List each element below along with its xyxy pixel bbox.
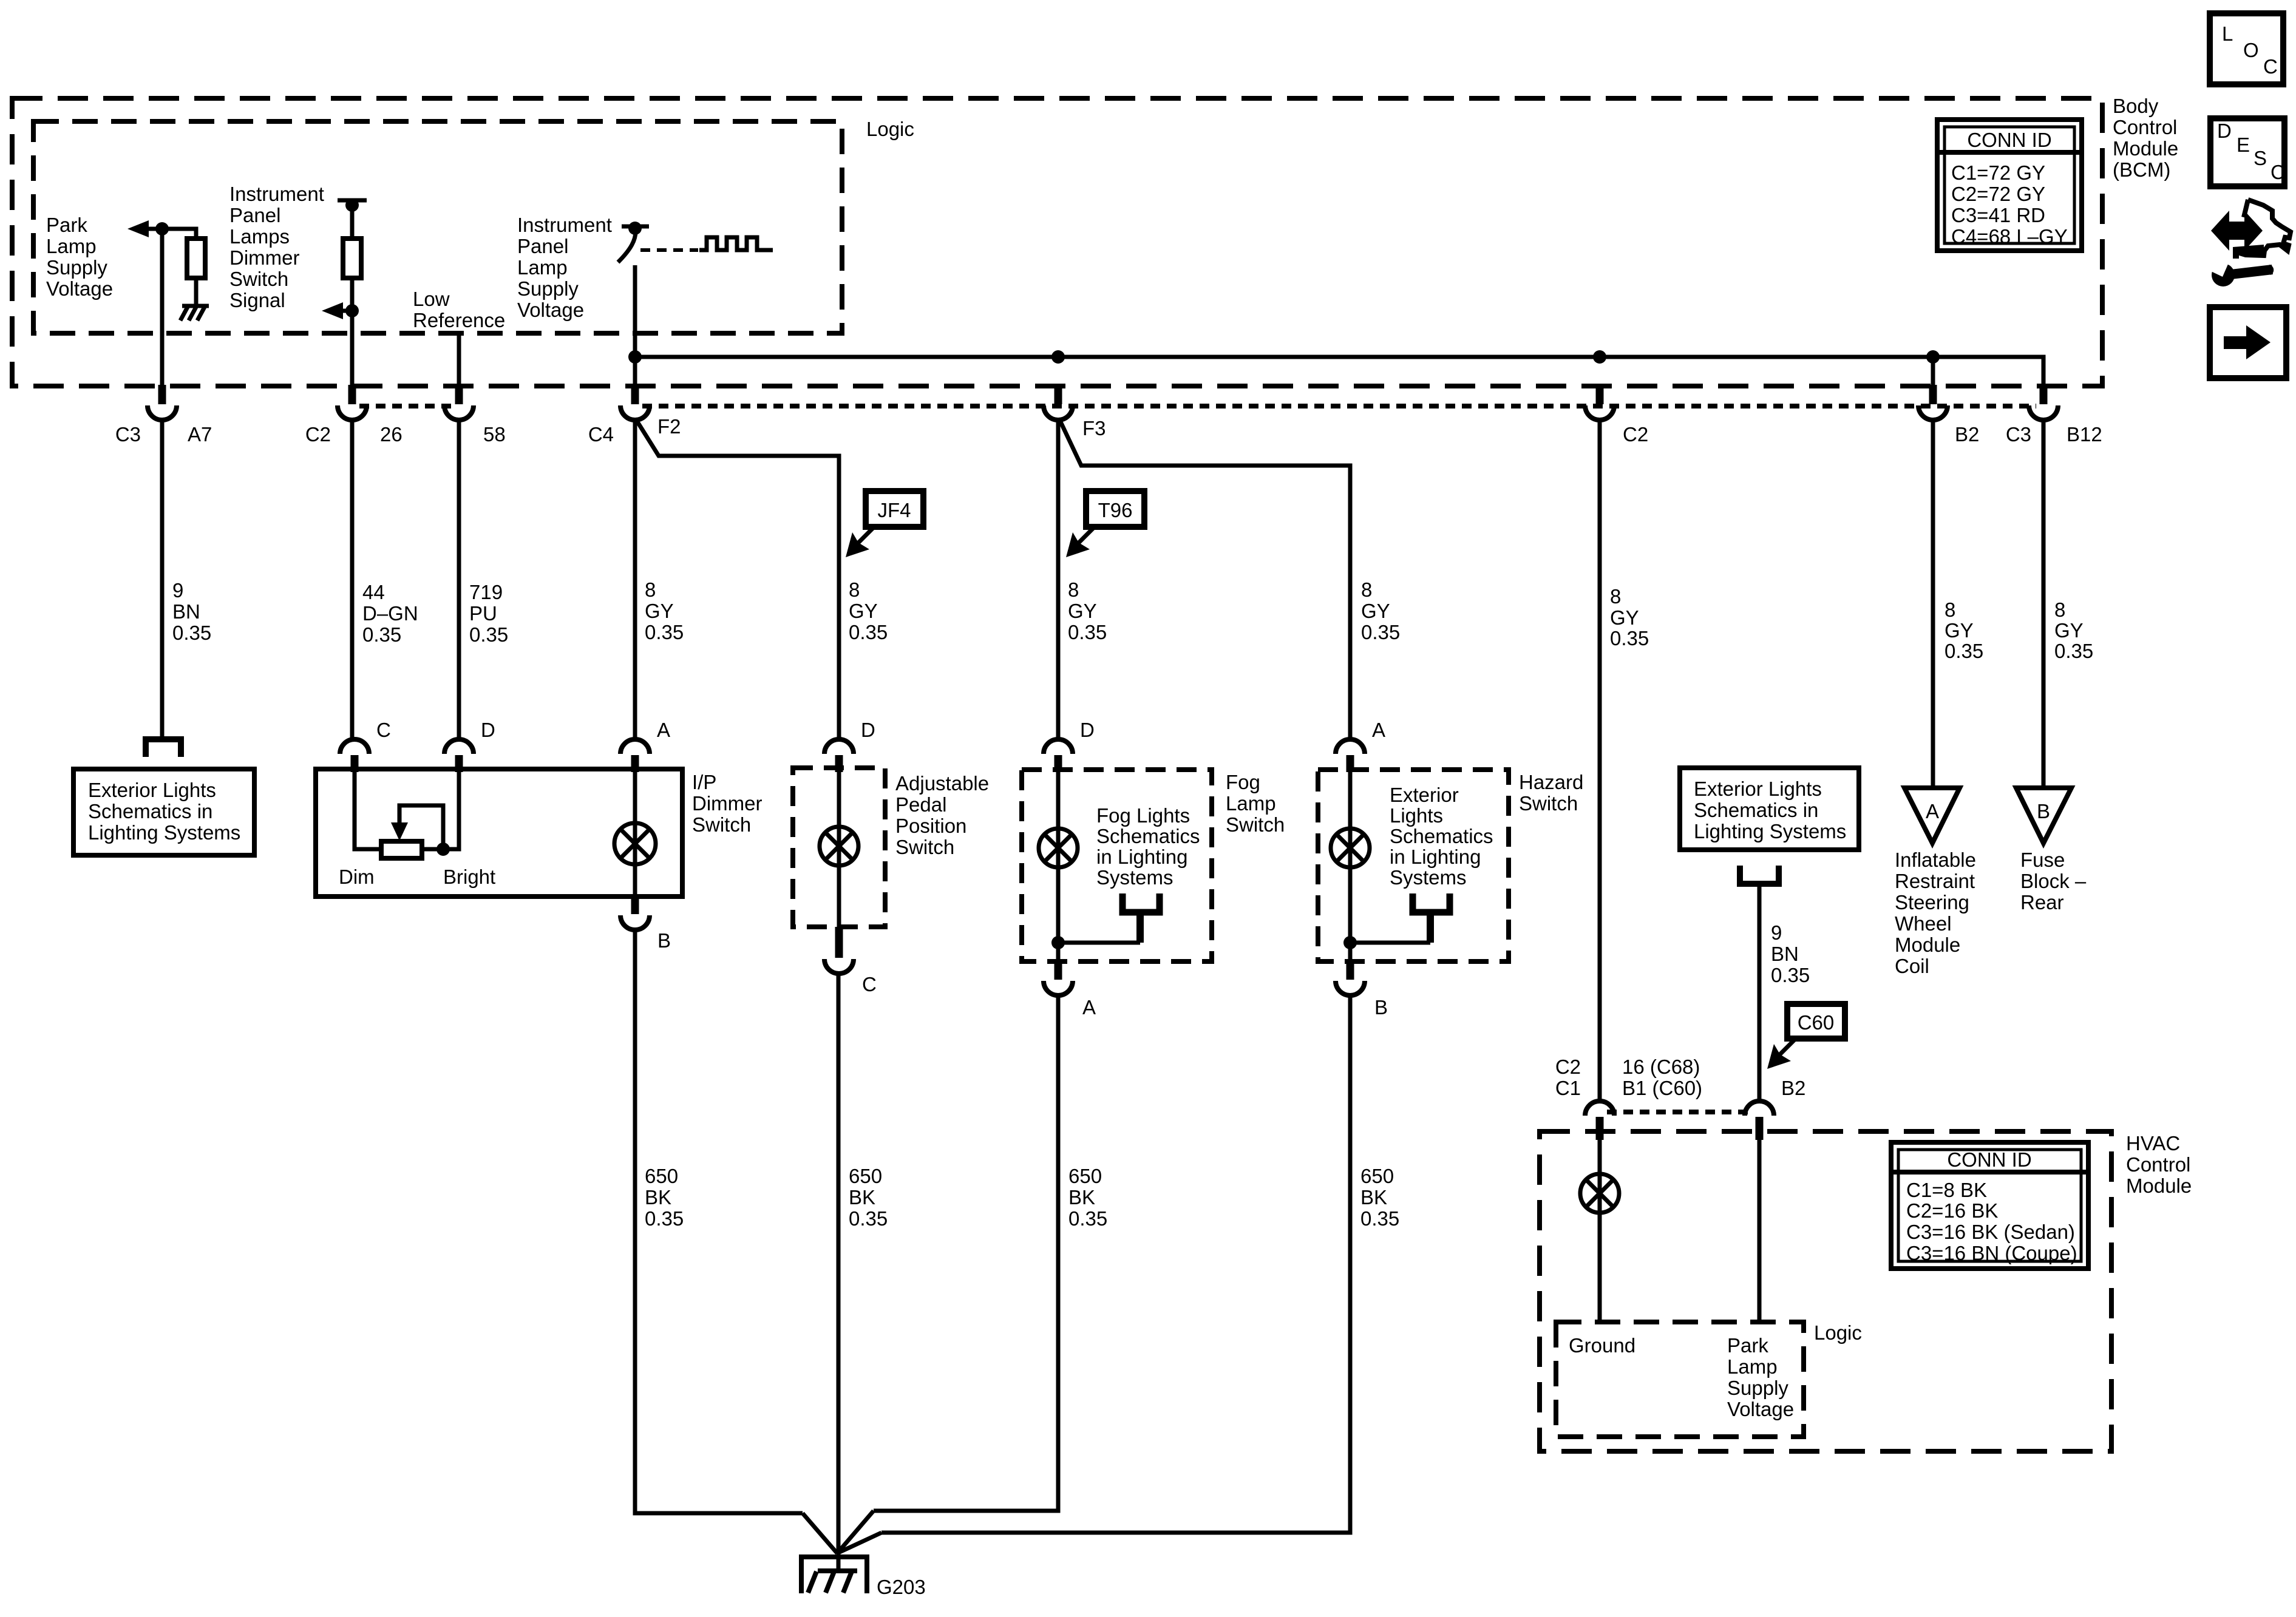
label 8 GY 0.35 (C2 right) [1610,585,1649,649]
triangle B off-page [2016,788,2071,843]
callout T96 [1066,491,1144,557]
svg-text:B2: B2 [1955,423,1979,446]
svg-text:E: E [2237,134,2250,156]
label 650 BK 0.35 (pedal wire) [849,1165,888,1230]
connector C4 F2 [620,385,650,420]
switch dashed link [640,248,698,252]
svg-text:C3=41 RD: C3=41 RD [1951,204,2045,226]
wire 719 PU [457,419,461,739]
svg-text:C: C [2271,161,2285,183]
svg-text:S: S [2254,147,2267,169]
wire C4 inside BCM [633,265,637,385]
wire pedal-C into ground [837,1551,841,1571]
svg-text:Lamp: Lamp [46,235,97,257]
svg-text:Dimmer: Dimmer [692,792,762,815]
svg-text:C1: C1 [1555,1077,1581,1099]
wire dimmer-B diagonal to ground [803,1513,837,1553]
svg-text:C2=72 GY: C2=72 GY [1951,183,2045,205]
svg-text:8: 8 [1361,578,1372,601]
switch blade [618,231,636,262]
svg-text:GY: GY [1361,600,1390,622]
svg-text:BK: BK [1360,1186,1387,1209]
svg-text:Ground: Ground [1569,1334,1635,1357]
potentiometer wiring (dimmer) [355,772,459,849]
connector C2 (right) [1585,385,1614,420]
svg-text:Lamp: Lamp [1727,1355,1778,1378]
LOC icon box [2210,13,2283,84]
connector pin B (dimmer) [620,897,650,930]
svg-text:B12: B12 [2067,423,2102,446]
connector pin D (fog) [1044,739,1073,772]
svg-text:A: A [1082,996,1096,1019]
connector B12 [2029,385,2058,420]
svg-text:BK: BK [849,1186,875,1209]
svg-text:0.35: 0.35 [1360,1207,1399,1230]
label I/P Dimmer Switch [692,771,762,836]
wire park branch to resistor [162,229,196,239]
svg-text:Instrument: Instrument [229,183,324,205]
svg-text:Restraint: Restraint [1895,870,1975,892]
svg-text:Lamp: Lamp [1226,792,1276,815]
svg-text:Steering: Steering [1895,891,1969,914]
svg-text:Control: Control [2126,1153,2190,1176]
svg-text:F2: F2 [657,415,681,438]
connector C1 (HVAC) [1585,1101,1614,1140]
BCM label [2113,95,2178,181]
wire C3/A7 inside BCM [160,229,165,385]
svg-text:Park: Park [46,214,87,236]
svg-text:Signal: Signal [229,289,285,311]
wire 650 BK (dimmer B) [635,929,803,1513]
svg-text:8: 8 [849,578,860,601]
svg-text:O: O [2243,39,2259,61]
svg-text:BN: BN [172,600,200,623]
svg-text:650: 650 [1360,1165,1394,1187]
svg-text:Panel: Panel [517,235,568,257]
svg-text:B1 (C60): B1 (C60) [1622,1077,1702,1099]
svg-text:26: 26 [380,423,402,446]
svg-text:Systems: Systems [1096,866,1173,889]
svg-text:GY: GY [1068,600,1097,622]
wire 8 GY (C4) [633,419,637,739]
switch pivot tee [622,222,649,235]
label 8 GY 0.35 (B2) [1944,598,1983,662]
svg-text:0.35: 0.35 [1610,627,1649,649]
Park Lamp Supply Voltage label [46,214,113,300]
label Park Lamp Supply Voltage (HVAC) [1727,1334,1794,1420]
svg-text:C: C [376,719,391,741]
svg-text:C4: C4 [588,423,614,446]
svg-text:44: 44 [362,581,385,603]
wiper arrow [391,805,443,849]
wire pedal interior [837,772,841,927]
label Exterior Lights Schematics in Lighting Systems (hazard) [1390,784,1493,889]
svg-text:D: D [861,719,875,741]
svg-text:8: 8 [645,578,656,601]
svg-text:D: D [481,719,495,741]
Fog Lamp Switch dashed box [1022,770,1212,961]
bent arrow icon [2233,245,2264,259]
wire resistor to chassis ground [194,278,199,306]
svg-text:Module: Module [1895,934,1960,956]
svg-text:B: B [2037,800,2050,822]
svg-text:9: 9 [172,579,183,602]
svg-text:Supply: Supply [517,277,579,300]
lamp hazard [1331,829,1370,867]
lamp dimmer [614,823,656,864]
connector B2 (HVAC) [1745,1101,1774,1140]
label 8 GY 0.35 (C4) [645,578,684,643]
node hazard junction [1343,936,1357,949]
svg-text:Switch: Switch [1226,813,1285,836]
node wiper junction [436,842,450,856]
svg-text:D: D [1080,719,1095,741]
lamp fog [1039,829,1078,867]
svg-text:A: A [1372,719,1385,741]
label 8 GY 0.35 (F2 branch) [849,578,888,643]
wire F3 branch [1061,422,1350,739]
svg-text:Instrument: Instrument [517,214,612,236]
svg-text:650: 650 [645,1165,678,1187]
svg-text:Dim: Dim [339,866,375,888]
svg-text:C3: C3 [2006,423,2031,446]
svg-text:Switch: Switch [229,268,288,290]
off-page bracket (exterior lights) [146,739,181,757]
svg-text:8: 8 [1944,598,1955,621]
label 9 BN 0.35 (right) [1771,921,1810,986]
svg-text:Coil: Coil [1895,955,1929,977]
Hazard Switch dashed box [1318,770,1509,961]
svg-text:Reference: Reference [413,309,505,331]
svg-text:C2=16 BK: C2=16 BK [1906,1199,1998,1222]
svg-text:Switch: Switch [895,836,954,858]
svg-text:B: B [657,929,671,952]
resistor potentiometer body [381,841,422,858]
svg-text:0.35: 0.35 [645,1207,684,1230]
label 650 BK 0.35 (dimmer wire) [645,1165,684,1230]
svg-text:58: 58 [483,423,506,446]
dotted connector line C1-B2 [1607,1110,1752,1114]
wire 8 GY (B12) [2042,419,2046,788]
label 16 (C68) B1 (C60) [1622,1056,1702,1099]
label 44 D-GN 0.35 [362,581,418,646]
svg-text:0.35: 0.35 [172,622,211,644]
node C2 top tee [338,198,367,212]
connector C2 26 [338,385,367,420]
svg-text:0.35: 0.35 [362,623,401,646]
node fog junction [1051,936,1065,949]
label Inflatable Restraint Steering Wheel Module Coil [1895,849,1976,977]
svg-text:Exterior Lights: Exterior Lights [1694,778,1822,800]
svg-text:CONN ID: CONN ID [1947,1148,2031,1171]
svg-text:Module: Module [2126,1175,2192,1197]
svg-text:in Lighting: in Lighting [1390,846,1481,868]
svg-text:Lamps: Lamps [229,225,290,248]
svg-text:0.35: 0.35 [469,623,508,646]
svg-text:Voltage: Voltage [46,277,113,300]
svg-text:Schematics in: Schematics in [1694,799,1818,821]
resistor R-park [187,239,205,278]
svg-text:Dimmer: Dimmer [229,246,299,269]
connector pin A (fog) [1044,961,1073,995]
dotted connector line C2-58 [359,404,452,408]
svg-text:0.35: 0.35 [849,621,888,643]
svg-text:Schematics: Schematics [1096,825,1200,847]
label Hazard Switch [1519,771,1583,815]
wire 8 GY (B2) [1931,419,1935,788]
Body Control Module (BCM) dashed box [12,98,2102,386]
label Fog Lamp Switch [1226,771,1285,836]
Logic box (BCM) [33,121,842,333]
label Fog Lights Schematics in Lighting Systems [1096,804,1200,889]
svg-text:A: A [1926,800,1939,822]
svg-text:Park: Park [1727,1334,1768,1357]
dimmer signal arrow [322,302,352,319]
svg-text:GY: GY [645,600,674,622]
Low Reference label [413,288,505,331]
svg-text:Module: Module [2113,137,2178,160]
svg-text:Pedal: Pedal [895,793,946,816]
vehicle outline icon [2238,200,2291,256]
svg-text:Fog Lights: Fog Lights [1096,804,1190,827]
svg-text:Low: Low [413,288,450,310]
wire F2 branch [637,422,839,739]
ground G203 symbol [801,1557,867,1593]
square wave symbol [699,237,773,250]
svg-text:Body: Body [2113,95,2159,117]
connector B2 (BCM) [1918,385,1948,420]
svg-text:B: B [1374,996,1388,1019]
svg-text:0.35: 0.35 [849,1207,888,1230]
wire 9 BN to exterior lights [160,419,165,739]
svg-text:Inflatable: Inflatable [1895,849,1976,871]
dotted connector line C4-B12 [642,404,2036,408]
label C2 C1 [1555,1056,1581,1099]
callout JF4 [846,491,923,557]
connector pin A (hazard) [1336,739,1365,772]
node bus-C2 [1593,350,1606,364]
svg-text:Fuse: Fuse [2020,849,2065,871]
svg-text:A7: A7 [188,423,212,446]
svg-text:GY: GY [849,600,878,622]
connector C3 A7 [148,385,177,420]
CONN ID table (HVAC) [1891,1142,2088,1269]
connector pin C (dimmer) [340,739,369,772]
svg-text:BN: BN [1771,943,1799,965]
svg-text:Switch: Switch [692,813,751,836]
svg-text:650: 650 [1068,1165,1102,1187]
connector pin D (pedal) [824,739,854,772]
svg-text:Exterior Lights: Exterior Lights [88,779,216,801]
svg-text:L: L [2222,22,2233,45]
lamp HVAC [1580,1174,1619,1213]
wire fog-A diagonal to ground [837,1511,874,1553]
connector pin D (dimmer) [444,739,474,772]
svg-text:Voltage: Voltage [517,299,584,321]
wire resistor down [350,278,355,385]
svg-text:JF4: JF4 [877,499,911,521]
svg-text:650: 650 [849,1165,882,1187]
wire hazard-B diagonal to ground [837,1533,881,1553]
svg-text:A: A [657,719,670,741]
label Adjustable Pedal Position Switch [895,772,989,858]
chassis ground [180,306,209,320]
svg-text:CONN ID: CONN ID [1967,129,2051,151]
node bus-B2 [1926,350,1940,364]
wire lamp A (dimmer) [633,772,637,897]
svg-text:Lighting Systems: Lighting Systems [1694,820,1846,842]
svg-text:D: D [2217,120,2232,142]
svg-text:D–GN: D–GN [362,602,418,625]
svg-text:BK: BK [645,1186,671,1209]
svg-text:C60: C60 [1798,1011,1835,1034]
label HVAC Control Module [2126,1132,2192,1197]
svg-text:8: 8 [1068,578,1079,601]
triangle A off-page [1904,788,1960,843]
svg-text:Panel: Panel [229,204,280,226]
svg-text:16 (C68): 16 (C68) [1622,1056,1700,1078]
I/P Dimmer Switch box [316,769,682,897]
wire 58 from logic box [457,333,461,385]
wire 650 BK (hazard) [881,995,1350,1533]
svg-text:Adjustable: Adjustable [895,772,989,795]
svg-text:Logic: Logic [866,118,914,140]
connector pin C (pedal) [824,927,854,974]
svg-text:Schematics in: Schematics in [88,800,212,822]
wire B2 to triangle A [1931,357,1935,404]
wrench icon [2210,259,2274,286]
wire 650 BK (pedal) [837,973,841,1551]
wire 8 GY (C2 right) [1598,419,1602,1102]
svg-text:Systems: Systems [1390,866,1467,889]
wire 8 GY (F3) [1056,419,1061,739]
label 650 BK 0.35 (hazard wire) [1360,1165,1399,1230]
svg-text:0.35: 0.35 [1771,964,1810,986]
svg-text:Lighting Systems: Lighting Systems [88,821,240,844]
svg-text:(BCM): (BCM) [2113,158,2170,181]
connector F3 [1044,385,1073,420]
svg-text:C2: C2 [1555,1056,1581,1078]
svg-text:Exterior: Exterior [1390,784,1459,806]
wire bracket to hazard wire [1427,912,1434,943]
svg-text:C: C [2263,55,2278,78]
node dimmer signal junction [345,304,359,317]
wire 650 BK (fog) [874,995,1058,1511]
connector pin B (hazard) [1336,961,1365,995]
svg-text:I/P: I/P [692,771,716,793]
svg-text:C3=16 BK (Sedan): C3=16 BK (Sedan) [1906,1221,2075,1243]
svg-text:9: 9 [1771,921,1782,944]
svg-text:Supply: Supply [46,256,107,279]
park lamp arrow [127,220,162,237]
wire HVAC park lamp [1758,1140,1762,1322]
wire fog interior [1056,772,1061,961]
svg-text:C1=8 BK: C1=8 BK [1906,1179,1987,1201]
label 9 BN 0.35 [172,579,211,644]
connector pin A (dimmer) [620,739,650,772]
svg-text:0.35: 0.35 [1068,1207,1107,1230]
svg-text:C3=16 BN (Coupe): C3=16 BN (Coupe) [1906,1242,2077,1264]
svg-text:C2: C2 [305,423,331,446]
svg-text:B2: B2 [1781,1077,1805,1099]
svg-text:Bright: Bright [443,866,495,888]
label 650 BK 0.35 (fog wire) [1068,1165,1107,1230]
svg-text:0.35: 0.35 [1068,621,1107,643]
svg-text:8: 8 [1610,585,1621,608]
wire 44 D-GN [350,419,355,739]
wire bracket to fog wire [1136,912,1144,943]
svg-text:Fog: Fog [1226,771,1260,793]
svg-text:0.35: 0.35 [1361,621,1400,643]
wire C2 top to resistor [350,205,355,239]
double-headed arrow icon [2211,211,2263,251]
svg-text:in Lighting: in Lighting [1096,846,1187,868]
svg-text:GY: GY [1944,619,1974,642]
svg-text:GY: GY [1610,606,1639,629]
svg-text:C1=72 GY: C1=72 GY [1951,161,2045,184]
wire hazard interior [1348,772,1353,961]
off-page bracket (hazard) [1413,893,1450,912]
svg-text:F3: F3 [1082,417,1106,439]
Exterior Lights Schematics box (right) [1680,768,1859,850]
node bus-F3 [1051,350,1065,364]
svg-text:C: C [862,973,877,995]
CONN ID table (BCM) [1937,120,2082,251]
label 8 GY 0.35 (F3 branch) [1361,578,1400,643]
Adjustable Pedal Position Switch dashed box [793,768,885,927]
wire 9 BN (HVAC B2) [1758,884,1762,1102]
resistor R-dimmer [343,239,361,278]
Instrument Panel Lamp Supply Voltage label [517,214,612,321]
callout C60 [1767,1004,1845,1069]
DESC icon box [2210,118,2285,186]
svg-text:HVAC: HVAC [2126,1132,2180,1154]
svg-text:G203: G203 [877,1576,926,1598]
svg-text:Logic: Logic [1814,1321,1862,1344]
svg-text:719: 719 [469,581,503,603]
node park lamp junction [155,222,169,236]
Instrument Panel Lamps Dimmer Switch Signal label [229,183,324,311]
svg-text:T96: T96 [1098,499,1133,521]
off-page bracket (fog) [1123,893,1160,912]
label 8 GY 0.35 (B12) [2054,598,2093,662]
connector pin 58 [444,385,474,420]
svg-text:Rear: Rear [2020,891,2064,914]
HVAC Control Module dashed box [1540,1131,2111,1451]
svg-text:GY: GY [2054,619,2084,642]
svg-text:8: 8 [2054,598,2065,621]
svg-text:Switch: Switch [1519,792,1578,815]
wire HVAC ground lamp [1598,1140,1602,1322]
svg-text:Supply: Supply [1727,1377,1788,1399]
label 8 GY 0.35 (F3) [1068,578,1107,643]
Exterior Lights Schematics box (left) [73,769,254,855]
svg-text:C3: C3 [115,423,141,446]
svg-text:Lamp: Lamp [517,256,568,279]
svg-text:Hazard: Hazard [1519,771,1583,793]
label 719 PU 0.35 [469,581,508,646]
svg-text:Schematics: Schematics [1390,825,1493,847]
svg-text:C2: C2 [1623,423,1648,446]
svg-text:Wheel: Wheel [1895,912,1952,935]
svg-text:BK: BK [1068,1186,1095,1209]
right-arrow icon box [2210,307,2286,378]
svg-text:Position: Position [895,815,966,837]
label Fuse Block Rear [2020,849,2087,914]
svg-text:Block –: Block – [2020,870,2087,892]
svg-text:PU: PU [469,602,497,625]
horizontal bus [635,357,2043,385]
